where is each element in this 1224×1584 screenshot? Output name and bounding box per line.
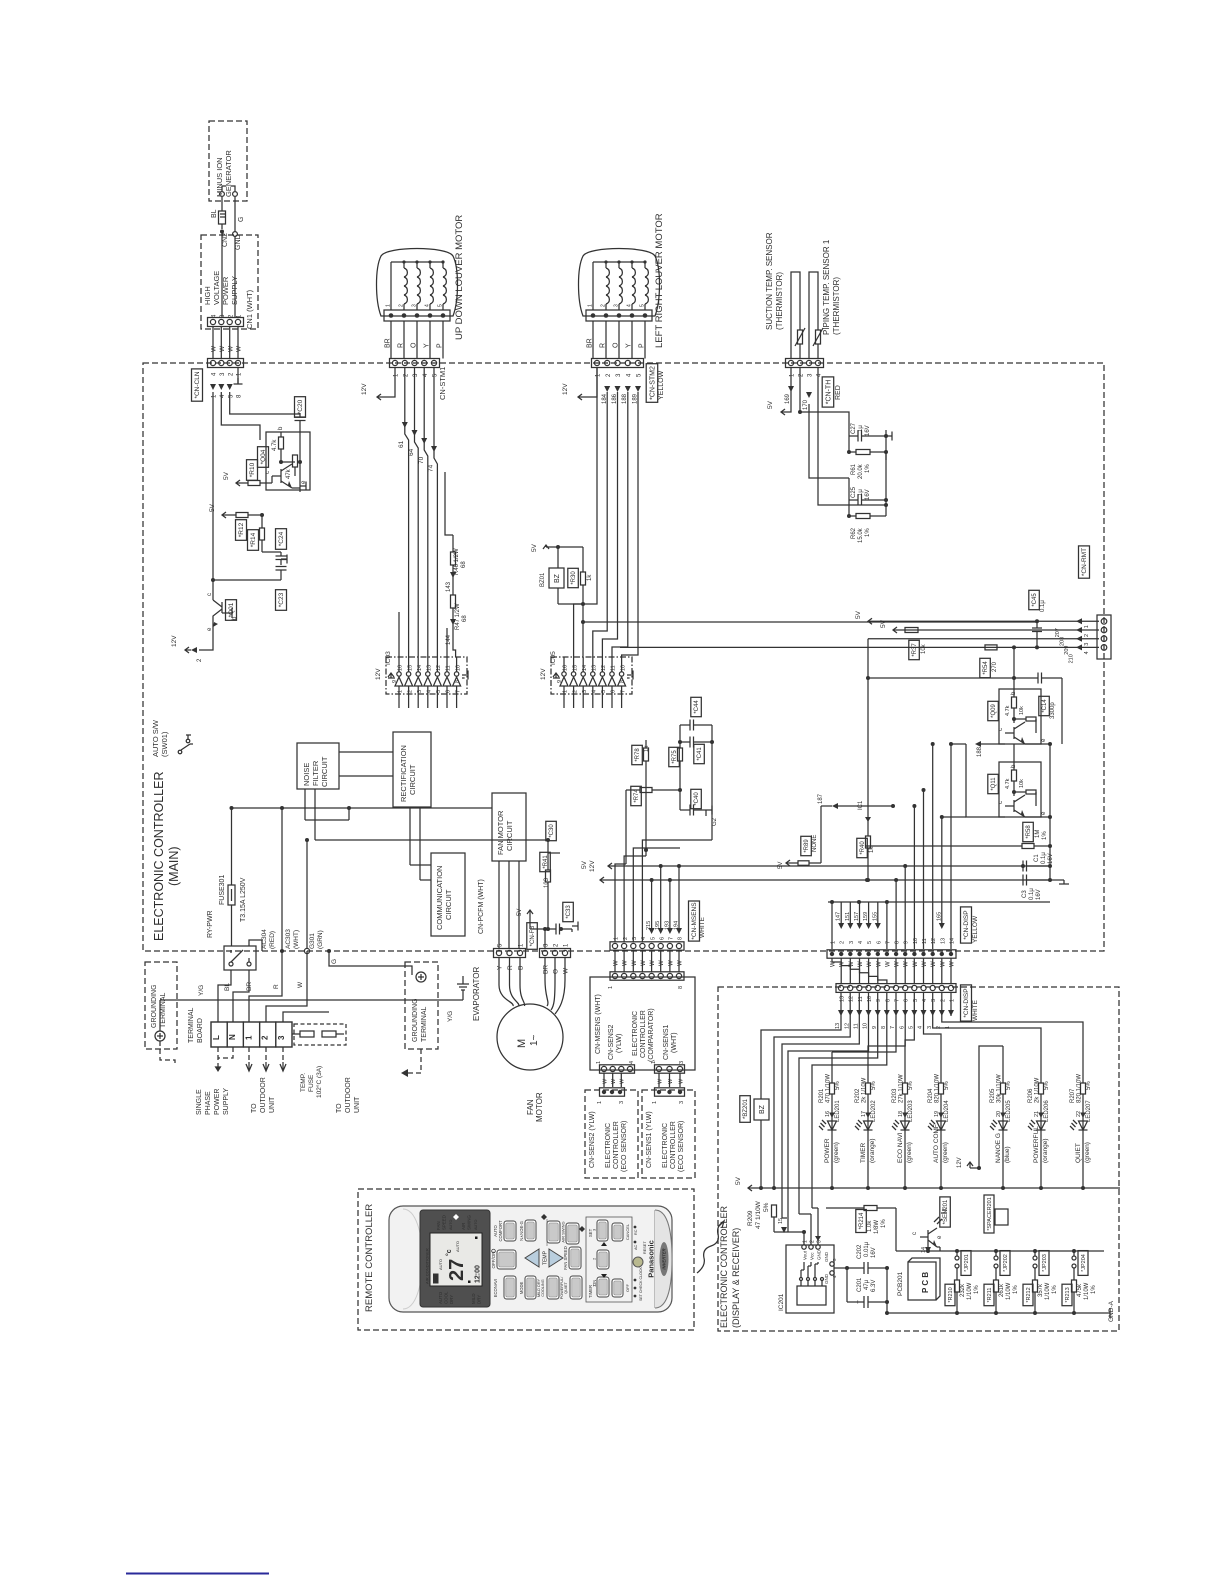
svg-text:(WHT): (WHT) (671, 1032, 678, 1053)
LED LED201 POWER with resistor R201 (819, 1052, 841, 1190)
svg-text:R209: R209 (747, 1210, 754, 1226)
svg-text:CN-SENS2: CN-SENS2 (608, 1024, 615, 1060)
svg-text:BZ: BZ (759, 1104, 766, 1114)
svg-text:NANOE G: NANOE G (995, 1133, 1002, 1163)
svg-text:2: 2 (809, 1240, 815, 1243)
svg-text:L: L (212, 1035, 221, 1040)
connector CN-SENS1 (651, 1061, 685, 1087)
svg-text:CONTROLLER: CONTROLLER (613, 1121, 620, 1169)
svg-text:6: 6 (659, 937, 665, 940)
svg-text:(ECO SENSOR): (ECO SENSOR) (678, 1121, 685, 1172)
svg-text:74: 74 (428, 464, 435, 472)
svg-text:CN-MSENS (WHT): CN-MSENS (WHT) (595, 994, 602, 1054)
resistor R209 47 1/10W (747, 1200, 804, 1233)
svg-text:5: 5 (867, 941, 873, 944)
jog wires between yellow and white connectors (832, 958, 951, 984)
svg-text:*JP201: *JP201 (964, 1254, 970, 1272)
svg-text:1M: 1M (1035, 830, 1041, 838)
IC05 output stubs (564, 694, 622, 708)
svg-text:(WHT): (WHT) (293, 930, 300, 949)
svg-text:R62: R62 (851, 527, 857, 539)
svg-text:AIR: AIR (461, 1223, 466, 1230)
vertical wires from yellow connector up (832, 742, 953, 949)
svg-text:CIRCUIT: CIRCUIT (444, 889, 453, 920)
connector CN-FB (527, 923, 571, 1014)
svg-text:C3: C3 (1022, 890, 1028, 898)
resistor R40 1k (857, 800, 875, 882)
svg-text:5V: 5V (767, 400, 774, 409)
svg-text:IC201: IC201 (778, 1293, 785, 1311)
svg-text:AUTO: AUTO (455, 1241, 460, 1252)
svg-text:5%: 5% (871, 1081, 877, 1090)
svg-text:BZ: BZ (554, 573, 561, 583)
svg-text:5V: 5V (735, 1176, 742, 1185)
svg-text:*R210: *R210 (948, 1287, 954, 1302)
svg-text:4: 4 (1084, 651, 1090, 654)
svg-text:12V: 12V (957, 1157, 963, 1168)
driver IC05 (540, 651, 633, 694)
svg-text:GND: GND (235, 234, 242, 250)
pin numbers and diodes under CN-DISP WHITE (835, 993, 955, 1030)
svg-text:Panasonic: Panasonic (647, 1240, 656, 1278)
svg-text:RC: RC (634, 1229, 638, 1235)
svg-text:(THERMISTOR): (THERMISTOR) (832, 277, 841, 335)
piping temp sensor 1 thermistor (822, 239, 841, 335)
Y/G wire and earth ground right (401, 976, 469, 1077)
diodes with numbers 147 151 157 159 155 (836, 902, 881, 929)
svg-text:1/10W: 1/10W (967, 1282, 973, 1300)
svg-text:LED201: LED201 (835, 1100, 841, 1122)
svg-text:C1: C1 (1034, 854, 1040, 862)
svg-text:R207: R207 (1070, 1088, 1076, 1103)
display wire bundle (761, 1010, 1083, 1232)
svg-text:(THERMISTOR): (THERMISTOR) (775, 272, 784, 330)
PCB201 (897, 1258, 940, 1300)
svg-text:IC03: IC03 (385, 651, 392, 665)
svg-text:16V: 16V (865, 489, 871, 500)
svg-text:GND-A: GND-A (1108, 1300, 1115, 1322)
horizontal distribution wires (232, 806, 551, 880)
capacitor C202 0.01u 16V (845, 1241, 889, 1274)
communication circuit block (431, 853, 465, 936)
capacitor C23 (213, 567, 287, 611)
svg-text:1: 1 (596, 1061, 602, 1064)
svg-text:0.1μ: 0.1μ (1040, 600, 1046, 612)
svg-text:3300p: 3300p (1050, 702, 1056, 719)
svg-text:FAN MOTOR: FAN MOTOR (496, 810, 505, 855)
suction thermistor symbol and loop (791, 272, 805, 359)
resistor R89 NONE (778, 806, 821, 869)
svg-text:7: 7 (890, 1026, 896, 1029)
svg-text:8: 8 (620, 680, 626, 683)
svg-text:O: O (553, 969, 560, 974)
svg-text:LED207: LED207 (1086, 1100, 1092, 1122)
svg-text:FAN: FAN (436, 1221, 441, 1230)
connector CN-STM2 (YELLOW) (592, 359, 666, 403)
svg-text:SPEED: SPEED (442, 1215, 447, 1230)
svg-text:7: 7 (669, 937, 675, 940)
wire 187 (818, 793, 895, 809)
svg-text:BOARD: BOARD (197, 1018, 204, 1043)
svg-text:DRY: DRY (477, 1295, 482, 1304)
svg-text:SWING: SWING (467, 1215, 472, 1230)
svg-text:O: O (613, 342, 620, 348)
svg-text:*Q11: *Q11 (991, 777, 997, 791)
svg-text:FUSE301: FUSE301 (219, 875, 226, 905)
electronic controller main dashed box (143, 363, 1104, 951)
ground GND-A (1104, 1300, 1115, 1322)
svg-text:FILTER: FILTER (311, 760, 320, 786)
wire G301 to right grounding terminal (329, 951, 412, 975)
capacitor C45 0.1u (1029, 590, 1046, 649)
svg-text:8: 8 (881, 1026, 887, 1029)
svg-text:1/10W: 1/10W (1045, 1282, 1051, 1300)
connector CN-CLN (192, 359, 244, 402)
svg-text:*SEN201: *SEN201 (943, 1199, 949, 1224)
svg-text:*JP203: *JP203 (1042, 1254, 1048, 1272)
fan motor circuit block (492, 793, 526, 861)
svg-text:10: 10 (863, 1023, 869, 1029)
svg-text:6: 6 (611, 690, 617, 693)
wires fan motor circuit to CN-PCFM (499, 861, 519, 948)
svg-text:(YLW): (YLW) (616, 1034, 623, 1053)
connector CN-DISP YELLOW (827, 907, 979, 967)
svg-text:IC05: IC05 (550, 651, 557, 665)
diodes and wire numbers 61 64 70 74 (398, 368, 437, 657)
svg-text:270: 270 (992, 661, 998, 672)
wires msens 1-4 up to RC network (615, 840, 712, 942)
long wire to remote receive line (583, 622, 1037, 657)
temp fuse box (292, 1024, 346, 1098)
svg-text:0.1μ: 0.1μ (1029, 888, 1035, 900)
svg-text:188: 188 (977, 746, 983, 757)
svg-text:5V: 5V (531, 543, 538, 552)
jumper/divider columns (887, 1251, 1104, 1313)
svg-text:GND: GND (824, 1251, 829, 1262)
svg-text:WHITE: WHITE (699, 916, 706, 938)
svg-text:POWERFUL: POWERFUL (1033, 1126, 1040, 1163)
svg-text:*R89: *R89 (804, 839, 810, 853)
capacitor C14 3300p (866, 673, 1062, 745)
svg-text:12: 12 (844, 1023, 850, 1029)
svg-text:CN-STM1: CN-STM1 (438, 367, 447, 400)
svg-text:210: 210 (1069, 654, 1075, 663)
svg-text:AC: AC (634, 1244, 638, 1250)
svg-text:AUTO: AUTO (438, 1291, 443, 1304)
LED LED204 AUTO COMF with resistor R204 (928, 1052, 950, 1190)
svg-text:820 1/10W: 820 1/10W (935, 1074, 941, 1103)
capacitor C25 + resistor R62 (809, 404, 888, 543)
svg-text:*R12: *R12 (238, 522, 245, 537)
transistor Q04 with bias resistors (258, 426, 311, 490)
svg-text:TERMINAL: TERMINAL (188, 1008, 195, 1044)
svg-text:CIRCUIT: CIRCUIT (408, 764, 417, 795)
svg-text:IC1: IC1 (858, 800, 864, 810)
svg-text:W: W (227, 345, 234, 352)
svg-text:2k 1/10W: 2k 1/10W (1035, 1077, 1041, 1103)
to outdoor unit arrows 1 2 (246, 1047, 276, 1113)
svg-text:209: 209 (1064, 646, 1070, 655)
svg-text:*R211: *R211 (987, 1288, 993, 1303)
svg-text:P: P (437, 343, 444, 348)
R41 C30 network (540, 821, 560, 931)
svg-text:MILD: MILD (471, 1294, 476, 1305)
svg-text:NONE: NONE (812, 835, 818, 852)
svg-text:QUIET: QUIET (1075, 1143, 1082, 1163)
svg-text:6.3V: 6.3V (871, 1280, 877, 1292)
remote lines 207 208 209 210 (620, 610, 1099, 820)
svg-text:R202: R202 (855, 1088, 861, 1103)
svg-text:10k: 10k (1019, 706, 1025, 715)
svg-text:6: 6 (446, 690, 452, 693)
svg-text:1%: 1% (865, 464, 871, 473)
svg-text:208: 208 (1060, 637, 1066, 646)
svg-text:C25: C25 (851, 486, 857, 498)
svg-text:13: 13 (940, 938, 946, 944)
svg-text:ELECTRONIC: ELECTRONIC (632, 1011, 639, 1056)
resistor R58 1M 1% (866, 822, 1052, 848)
svg-text:CN1 (WHT): CN1 (WHT) (245, 289, 254, 329)
svg-text:2: 2 (1084, 634, 1090, 637)
suction temp sensor thermistor (765, 232, 784, 330)
eco sensor plug CN-SENS1 (652, 1088, 685, 1104)
wires into IC201 pins (799, 1208, 821, 1245)
svg-text:11: 11 (854, 1023, 860, 1029)
svg-text:3: 3 (679, 1101, 685, 1104)
svg-text:*CN-MSENS: *CN-MSENS (691, 902, 698, 940)
svg-text:*C14: *C14 (1042, 699, 1048, 713)
rectification circuit block (393, 732, 431, 807)
svg-text:ELECTRONIC CONTROLLER: ELECTRONIC CONTROLLER (152, 772, 166, 941)
svg-text:(green): (green) (833, 1142, 840, 1163)
svg-text:*C40: *C40 (694, 792, 700, 806)
resistor R12 R14 C24 cluster (209, 503, 287, 565)
svg-text:VOLTAGE: VOLTAGE (212, 271, 221, 305)
12V feed to Q01 with diode 2 (171, 627, 213, 662)
svg-text:4.7k: 4.7k (1005, 705, 1011, 716)
svg-text:YELLOW: YELLOW (658, 370, 665, 400)
svg-text:3: 3 (927, 1026, 933, 1029)
5V 12V distribution line (828, 900, 1050, 904)
svg-text:FAN: FAN (526, 1099, 535, 1115)
svg-text:GROUNDING: GROUNDING (151, 984, 158, 1028)
svg-text:Vcc: Vcc (809, 1252, 814, 1260)
label REMOTE CONTROLLER (364, 1204, 375, 1312)
svg-text:CANCEL: CANCEL (625, 1223, 630, 1240)
5V feed for thermistors (767, 368, 812, 415)
svg-text:R: R (600, 343, 607, 348)
5V and 12V rails (581, 860, 1050, 883)
svg-text:Y: Y (424, 343, 431, 348)
svg-text:ELECTRONIC: ELECTRONIC (605, 1123, 612, 1168)
node G301 (GRN) (309, 930, 331, 953)
svg-text:170: 170 (803, 399, 809, 410)
svg-text:16V: 16V (865, 425, 871, 436)
resistor R30 1k (568, 547, 593, 624)
svg-text:C201: C201 (857, 1277, 863, 1292)
IC201 receiver module (778, 1240, 837, 1313)
svg-text:5: 5 (909, 1026, 915, 1029)
ground at CN-CLN pin 8 (234, 368, 243, 384)
svg-text:(COMPARATOR): (COMPARATOR) (648, 1008, 655, 1062)
svg-text:W: W (611, 1078, 617, 1084)
svg-text:W: W (885, 961, 891, 967)
svg-text:*C45: *C45 (1032, 593, 1038, 607)
svg-text:W: W (563, 967, 570, 974)
wire Q04 branch down (222, 514, 262, 516)
svg-text:5V: 5V (778, 862, 784, 869)
svg-text:4.7k: 4.7k (272, 439, 278, 451)
svg-text:12V: 12V (562, 383, 569, 395)
evaporator ground (472, 967, 481, 1021)
resistor R46 1/2W 68 with marker 143 (445, 472, 467, 592)
connector CN-TH (RED) (786, 359, 843, 408)
svg-text:POWER: POWER (214, 1089, 221, 1115)
svg-text:OFF/ON: OFF/ON (491, 1252, 496, 1269)
svg-text:5: 5 (601, 690, 607, 693)
svg-text:UNIT: UNIT (269, 1096, 276, 1113)
svg-text:*CN-TH: *CN-TH (825, 380, 832, 405)
svg-text:475k: 475k (1077, 1283, 1083, 1297)
svg-text:169: 169 (785, 393, 791, 404)
svg-text:(green): (green) (1084, 1142, 1091, 1163)
svg-text:2: 2 (601, 304, 607, 307)
diodes and wire numbers 184 186 188 189 (602, 386, 641, 404)
svg-text:CN-SENS1 (YLW): CN-SENS1 (YLW) (646, 1111, 653, 1168)
svg-text:1: 1 (398, 690, 404, 693)
title ELECTRONIC CONTROLLER (MAIN) (152, 772, 181, 941)
svg-text:REMOTE CONTROLLER: REMOTE CONTROLLER (364, 1204, 375, 1312)
svg-text:(MAIN): (MAIN) (167, 846, 181, 886)
svg-text:*SPACER201: *SPACER201 (987, 1197, 993, 1231)
svg-text:5%: 5% (1044, 1081, 1050, 1090)
svg-text:15: 15 (778, 1218, 784, 1224)
svg-text:*CN-DISP: *CN-DISP (963, 988, 970, 1017)
svg-text:COMFORT: COMFORT (498, 1220, 503, 1242)
svg-text:ELECTRONIC: ELECTRONIC (662, 1123, 669, 1168)
svg-text:R203: R203 (892, 1088, 898, 1103)
svg-text:1/8W: 1/8W (874, 1220, 880, 1234)
svg-text:COMMUNICATION: COMMUNICATION (435, 866, 444, 930)
fan motor M1~ (497, 1004, 563, 1122)
connector CN-MSENS edge row (610, 901, 706, 966)
svg-text:4: 4 (918, 1026, 924, 1029)
connector CN1 (208, 232, 244, 327)
svg-text:CN-PCFM (WHT): CN-PCFM (WHT) (478, 879, 485, 934)
svg-text:1: 1 (597, 1101, 603, 1104)
svg-text:70: 70 (418, 456, 425, 464)
svg-text:5%: 5% (944, 1081, 950, 1090)
single phase power supply arrows (196, 1047, 233, 1115)
svg-text:1%: 1% (1091, 1285, 1097, 1294)
svg-text:WHITE: WHITE (972, 999, 979, 1021)
spacer SPACER201 (984, 1195, 1008, 1233)
receiver bottom rail continuation (0, 0, 1, 1)
svg-text:3: 3 (582, 690, 588, 693)
svg-text:143: 143 (446, 581, 452, 592)
svg-text:*R30: *R30 (571, 571, 577, 585)
svg-text:144: 144 (446, 634, 452, 645)
svg-text:TIMER: TIMER (860, 1142, 867, 1163)
resistor R47 1/2W 68 with marker 144 (446, 578, 468, 657)
svg-text:R61: R61 (851, 463, 857, 475)
svg-text:FUSE: FUSE (308, 1074, 315, 1092)
svg-text:*C24: *C24 (278, 531, 285, 546)
svg-text:470 1/10W: 470 1/10W (826, 1074, 832, 1103)
capacitor C1 0.1u 16V (1023, 846, 1054, 872)
svg-text:G301: G301 (309, 933, 316, 949)
svg-text:1: 1 (244, 1035, 253, 1040)
svg-text:GND: GND (816, 1249, 821, 1260)
electronic controller display receiver box (718, 987, 1119, 1331)
svg-text:*C20: *C20 (297, 399, 304, 414)
fuse FUSE301 T3.15A L250V (219, 875, 247, 922)
svg-text:°c: °c (445, 1249, 453, 1256)
svg-text:*R58: *R58 (1026, 825, 1032, 839)
svg-text:AIR CONDITIONER: AIR CONDITIONER (425, 1248, 430, 1284)
svg-text:AC303: AC303 (285, 929, 292, 949)
wires CN-CLN pins 2,3 to Q04 (221, 392, 300, 440)
svg-text:BR: BR (385, 338, 392, 348)
left right louver motor (579, 213, 666, 358)
wires from nodes down into terminal board (280, 806, 284, 951)
svg-text:TERMINAL: TERMINAL (421, 1007, 428, 1043)
svg-text:2: 2 (572, 690, 578, 693)
svg-text:10k: 10k (1019, 779, 1025, 788)
svg-text:357k: 357k (1038, 1283, 1044, 1297)
svg-text:NOISE: NOISE (302, 763, 311, 786)
svg-text:BR: BR (587, 338, 594, 348)
svg-text:RY-PWR: RY-PWR (207, 910, 214, 938)
svg-text:*R74: *R74 (634, 789, 640, 803)
svg-text:W: W (668, 1078, 674, 1084)
svg-text:1%: 1% (974, 1285, 980, 1294)
capacitor C201 47u 6.3V electrolytic (847, 1268, 889, 1315)
svg-text:Y/G: Y/G (447, 1011, 454, 1022)
LED LED207 QUIET with resistor R207 (1070, 1052, 1092, 1190)
svg-text:(orange): (orange) (1042, 1138, 1049, 1163)
svg-text:1: 1 (651, 1061, 657, 1064)
svg-text:*CN-CLN: *CN-CLN (194, 371, 201, 398)
resistor R37 10k (909, 640, 927, 659)
svg-text:O: O (411, 342, 418, 348)
IR squiggle from remote (697, 1221, 724, 1273)
connector CN-SENS2 (596, 1061, 635, 1087)
svg-text:(blue): (blue) (1004, 1146, 1011, 1163)
svg-text:*R212: *R212 (1026, 1287, 1032, 1302)
photo sensor SEN201 (912, 1197, 950, 1253)
svg-text:TEMP: TEMP (543, 1250, 549, 1265)
svg-text:4: 4 (427, 690, 433, 693)
svg-text:QUIET: QUIET (564, 1282, 568, 1294)
svg-text:5%: 5% (908, 1081, 914, 1090)
svg-text:20.0k: 20.0k (858, 463, 864, 479)
buzzer BZ201 (740, 1088, 769, 1190)
svg-text:HIGH: HIGH (203, 286, 212, 305)
svg-text:W: W (602, 1078, 608, 1084)
svg-text:0.01μ: 0.01μ (864, 1241, 870, 1257)
svg-text:10k: 10k (921, 643, 927, 654)
svg-text:ECONAVI: ECONAVI (493, 1279, 498, 1298)
svg-text:PHASE: PHASE (205, 1091, 212, 1115)
electronic controller comparator box (590, 977, 695, 1070)
svg-text:1: 1 (652, 1101, 658, 1104)
wire CN-CLN pin1 down to Q01 (211, 392, 215, 582)
svg-text:GND: GND (824, 1273, 829, 1284)
jumper JP202 resistor R211 (984, 1249, 1019, 1315)
svg-text:16V: 16V (1048, 853, 1054, 864)
svg-text:3: 3 (816, 1240, 822, 1243)
